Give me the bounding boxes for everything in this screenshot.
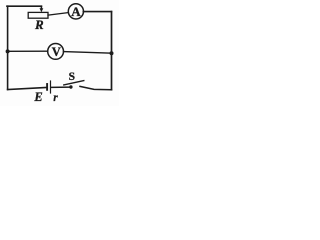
battery positive plate (long thin) [50, 81, 52, 93]
svg-text:A: A [71, 4, 81, 19]
wire ammeter to right rail [83, 11, 111, 13]
svg-text:R: R [34, 17, 44, 32]
svg-text:S: S [69, 71, 75, 83]
svg-text:V: V [52, 45, 61, 59]
wire bottom left to battery [8, 88, 47, 90]
wire voltmeter to right rail [64, 52, 112, 54]
switch S pivot dot [69, 85, 72, 88]
svg-text:E: E [33, 90, 42, 104]
wire resistor to ammeter [48, 13, 68, 16]
wire top left [7, 5, 41, 7]
node junction left (voltmeter tap) [6, 49, 10, 53]
battery negative plate (short thick) [46, 84, 48, 90]
svg-text:r: r [53, 92, 58, 104]
voltmeter V circle [48, 44, 64, 60]
wire right rail [111, 12, 113, 90]
wire middle left to voltmeter [8, 50, 48, 52]
resistor R1 box [28, 12, 48, 18]
wire left rail [7, 6, 9, 89]
node junction right (voltmeter tap) [110, 51, 114, 55]
wire rheostat slider stem [40, 6, 42, 9]
rheostat slider arrowhead [40, 8, 44, 12]
switch S blade [64, 81, 84, 85]
wire switch to right rail [80, 86, 112, 89]
wire battery to switch [51, 86, 70, 88]
ammeter A circle [68, 4, 83, 19]
